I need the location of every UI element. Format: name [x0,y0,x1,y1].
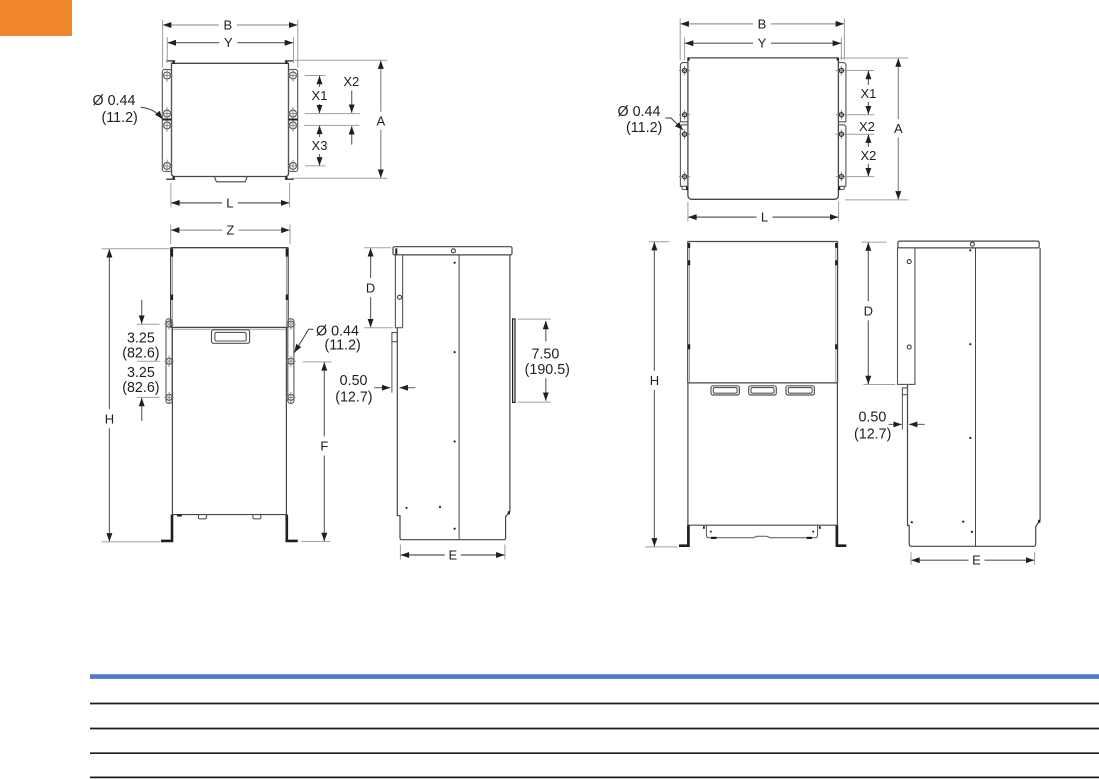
SL dimension E [401,554,445,556]
svg-text:B: B [758,16,767,31]
svg-text:A: A [894,121,903,136]
table row line 2 [90,728,1099,730]
BL front view lower body edges [171,327,173,514]
TR top corner marks [688,58,690,61]
SL bracket plane line [391,342,393,393]
TR dimension X1 [867,71,869,85]
TR hole callout leader [665,118,683,130]
orange header block [0,0,72,36]
TR right bracket lower strip [838,125,846,187]
svg-text:(82.6): (82.6) [122,345,159,361]
SR side view body outline [908,248,1041,546]
SL dim E extension lines [399,545,401,560]
BR louver 3 [786,386,814,395]
table blue header rule [90,674,1099,679]
SL 7.50 extension lines [518,318,551,320]
svg-text:Z: Z [226,223,234,238]
SR dimension E [911,559,968,561]
BL front view door bottom line [171,326,289,328]
TR dimension B [681,23,753,25]
TR dimension L [688,216,756,218]
BL dim F extension lines [303,361,332,363]
TL bottom-right corner tab [285,178,294,180]
TL hole callout leader [141,107,163,119]
svg-text:(12.7): (12.7) [854,427,891,443]
TR right bracket bottom tab [840,186,845,189]
svg-text:F: F [320,439,328,454]
SR dim E extension lines [910,552,912,565]
SR panel seam [975,248,977,546]
TL enclosure rear view body [172,63,289,176]
TR dimension Y [685,42,753,44]
svg-text:E: E [448,547,457,562]
BL right leg [287,515,298,541]
BR 0.50 arrows [889,423,902,425]
SL cap screw [451,249,455,253]
BR front view top edge [688,241,838,243]
svg-text:(12.7): (12.7) [335,390,372,406]
TL dimension X3 [319,126,321,137]
TL bottom center tab [215,177,248,182]
TL right bracket slot line [289,119,298,121]
TL dimension X2 arrows [351,91,353,113]
TR dimension A [897,58,899,119]
BL 3.25 extension lines [137,323,160,325]
svg-text:7.50: 7.50 [531,346,559,362]
TL top-right corner tab [285,60,294,62]
SR bracket foot notch [902,388,907,395]
TL dimension L [171,202,222,204]
BR louver 1 [711,386,739,395]
TL left bracket holes [164,72,171,79]
BR dim D extension lines [862,241,887,243]
TR right bracket upper strip [838,63,846,122]
BR louver 2 [749,386,777,395]
BL right bracket holes [288,321,294,327]
SR bracket plane line [901,395,903,430]
svg-text:X2: X2 [860,148,876,163]
SL panel seam [458,255,460,540]
BL right mounting bracket [288,319,294,404]
BL left leg [161,515,172,541]
TL dimension X1 [319,76,321,87]
TR left bracket lower strip [680,125,688,187]
BL bottom tick [177,515,182,517]
SL mounting bracket channel [395,255,402,328]
svg-text:B: B [223,17,232,32]
BR front view lower body edges [687,383,689,525]
BL left bracket holes [166,321,172,327]
BL bottom feet bumps [198,515,206,519]
TL left mounting bracket [162,69,171,171]
SL rivet dots [454,262,456,264]
BR bottom skirt [706,525,817,538]
table row line 4 [90,776,1099,778]
BR front view door inner edges [689,243,691,383]
TR left bracket bottom tab [682,186,687,189]
svg-text:H: H [650,373,659,388]
TL right mounting bracket [289,69,298,171]
TL dim L extension lines [170,183,172,208]
BR front view door outer edges [687,242,689,383]
SR cap screw [970,242,974,246]
SL dimension D [370,248,372,278]
SR mounting bracket channel [898,248,915,385]
TL dimension Y [168,42,220,44]
TR dim Y extension lines [684,38,686,61]
SL door handle plate [513,319,515,403]
svg-text:D: D [366,280,375,295]
svg-text:0.50: 0.50 [340,373,368,389]
TL dim Y extension lines [166,37,168,63]
BR dimension H [653,242,655,371]
svg-text:Ø 0.44: Ø 0.44 [93,93,136,109]
svg-text:(11.2): (11.2) [102,110,138,126]
TL dimension B [163,24,219,26]
BL dim Z extension lines [170,225,172,245]
BL front view door inner edges [171,249,173,327]
TR dim L extension lines [687,202,689,222]
TL left bracket slot line [163,119,172,121]
BL 3.25 upper arrow [141,300,143,324]
svg-text:D: D [864,304,873,319]
TR X extension lines [846,70,874,72]
BR dimension D [867,243,869,302]
BL left mounting bracket [166,319,172,404]
SR top cap [898,241,1039,248]
svg-text:Y: Y [758,36,767,51]
SL dim D extension lines [364,247,391,249]
svg-text:3.25: 3.25 [127,330,155,346]
TL dimension A [380,61,382,112]
BR right leg [837,525,846,546]
BL 0.50 arrows [374,387,390,389]
SL side view body outline [397,255,510,540]
SL bracket foot notch [392,333,397,342]
BL dimension Z [171,229,222,231]
TL right bracket holes [290,72,297,79]
TR dimension X2 lower [867,135,869,147]
svg-text:E: E [972,553,981,568]
BL dimension F [323,362,325,436]
SL bottom right notch tick [508,511,510,514]
svg-text:H: H [105,412,114,427]
SR bracket screws [907,260,911,264]
svg-text:X2: X2 [343,74,359,89]
TR enclosure rear view body [688,58,839,199]
svg-text:L: L [761,210,768,225]
BR hinge marks [688,243,690,248]
TR right bracket holes [840,66,842,76]
table row line 1 [90,703,1099,705]
svg-text:(82.6): (82.6) [122,380,159,396]
BL front view bottom line [172,514,286,516]
BR left leg [679,525,688,546]
BR front view bottom line [688,524,838,526]
table row line 3 [90,752,1099,754]
SL 7.50 arrows and labels [545,321,547,342]
BL hole callout leader [294,329,313,352]
SR top right notch tick [1038,520,1040,523]
TR left bracket holes [684,66,686,76]
svg-text:Y: Y [224,35,233,50]
SL bracket screw [398,295,402,299]
SL top cap [393,247,512,255]
BL dim H extension lines [102,248,170,250]
TL X extension lines [305,75,326,77]
TL top-left corner tab [166,60,175,62]
BR front view door bottom line [688,382,838,384]
svg-text:(190.5): (190.5) [525,362,570,378]
svg-text:Ø 0.44: Ø 0.44 [618,104,661,120]
svg-text:3.25: 3.25 [127,365,155,381]
TR dim B extension lines [679,19,681,61]
BL handle [212,330,250,344]
BR dim H extension lines [649,241,670,243]
svg-text:A: A [376,114,385,129]
BL 3.25 lower arrow [141,398,143,421]
BR skirt ticks [703,526,705,529]
svg-text:X1: X1 [312,88,328,103]
BL front view top edge [171,247,289,249]
svg-text:L: L [226,195,233,210]
svg-text:0.50: 0.50 [858,410,886,426]
svg-text:X3: X3 [312,138,328,153]
TR dim A extension lines [840,57,909,59]
TL dim B extension lines [162,20,164,68]
TL dim A extension lines [295,59,388,61]
svg-text:(11.2): (11.2) [325,338,361,354]
TR left bracket upper strip [680,63,688,122]
BL front view door outer edges [170,248,172,328]
TL bottom-left corner tab [166,178,175,180]
svg-text:(11.2): (11.2) [626,120,662,136]
SR rivet dots [969,249,971,251]
svg-text:X2: X2 [859,119,875,134]
svg-text:X1: X1 [860,86,876,101]
BL dimension H [108,249,110,409]
SL cap left end mark [395,248,397,254]
BL hinge marks [171,249,173,257]
